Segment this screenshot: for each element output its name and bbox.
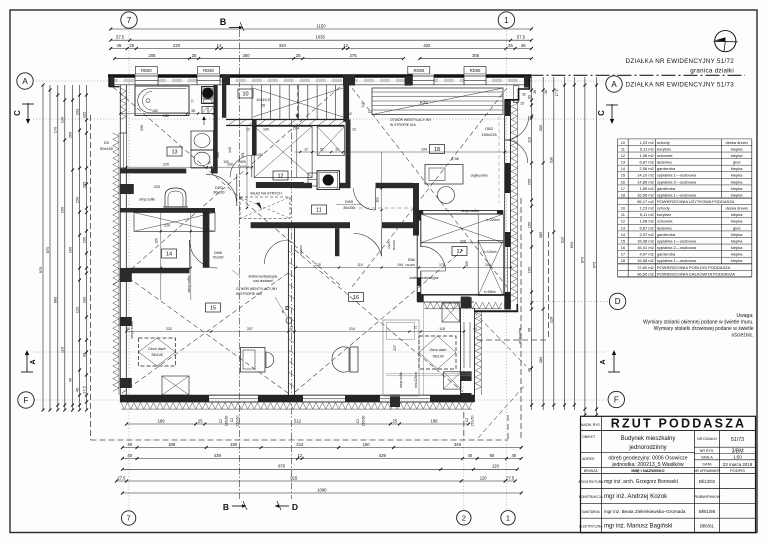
door arc room17 [421,246,445,248]
svg-text:klepka: klepka [731,166,743,171]
interior dim chain bathroom bottom [126,166,252,168]
window in bottom wall [380,394,430,396]
svg-text:12: 12 [413,326,417,330]
interior dim chain schowek row [295,151,511,153]
svg-text:15: 15 [210,306,216,312]
room label 11 [312,205,327,214]
right section arrow A [613,352,615,372]
roof diagonal left X [113,87,340,285]
svg-text:10x15,9: 10x15,9 [256,98,270,102]
svg-text:30: 30 [522,93,526,97]
svg-text:182: 182 [152,109,158,113]
svg-text:600: 600 [569,241,574,248]
roof diagonal right X [352,88,507,287]
svg-text:220: 220 [173,43,181,48]
door arc corridor-room16 [381,228,383,256]
svg-text:POWIERZCHNIA CAŁKOWITA PODDASZ: POWIERZCHNIA CAŁKOWITA PODDASZA [657,271,735,276]
svg-text:klepka: klepka [731,173,743,178]
svg-text:385: 385 [538,231,543,238]
built-in wardrobe K32 [372,88,503,115]
room label 17 [452,247,467,256]
svg-text:5,11 m2: 5,11 m2 [640,212,655,217]
svg-text:207: 207 [247,327,253,331]
svg-text:h=140cm: h=140cm [483,250,497,254]
desk room 15 [241,348,266,373]
svg-text:C2: C2 [465,418,469,422]
window in wing right wall [463,322,465,368]
svg-text:klepka: klepka [731,232,743,237]
interior wall bathroom south [120,169,186,174]
svg-text:100: 100 [485,263,491,267]
svg-text:12: 12 [352,128,356,132]
svg-text:2,37 m2: 2,37 m2 [639,232,654,237]
svg-text:mgr inż. Andrzej Kozok: mgr inż. Andrzej Kozok [604,493,668,500]
svg-text:334: 334 [279,43,287,48]
svg-text:16,58 m2: 16,58 m2 [637,258,654,263]
left section arrow C [27,103,29,122]
dashed eaves right bay [548,232,550,340]
svg-text:klepka: klepka [731,252,743,257]
svg-text:305: 305 [472,53,480,58]
svg-text:140: 140 [228,147,232,153]
room area schedule table [618,138,752,140]
grid marker circle 1 top [498,12,514,28]
svg-text:B: B [220,17,227,27]
roof window room 15 [139,338,176,366]
svg-text:A: A [600,359,607,364]
svg-text:38: 38 [191,109,195,113]
svg-text:14,10 m2: 14,10 m2 [637,173,654,178]
exterior wall top [108,74,531,77]
svg-text:OB2: OB2 [485,126,493,131]
right section arrow C [611,104,613,122]
svg-text:sypialnia 1—osobowa: sypialnia 1—osobowa [657,258,697,263]
svg-text:DW6: DW6 [214,251,222,255]
ceiling outline dashes room18 [352,207,412,209]
interior wall room14/15 divider [126,268,189,274]
svg-text:OTWÓR WENTYLACYJNY: OTWÓR WENTYLACYJNY [390,117,432,122]
interior wall room14 north [120,208,215,213]
lintel labels RD60 [135,67,157,75]
svg-text:52: 52 [320,147,324,151]
svg-text:6,87 m2: 6,87 m2 [639,225,654,230]
toilet in WC [165,188,186,207]
svg-text:mgr inż. Beata Zielenkiewska–G: mgr inż. Beata Zielenkiewska–Gromada [604,509,686,514]
svg-text:45: 45 [117,43,122,48]
svg-text:610: 610 [559,236,564,243]
room label 16 [349,293,364,302]
bottom dim row 40/439/12/439/40/80/40 [122,458,521,460]
svg-text:265: 265 [81,181,86,188]
wing bottom wall (room 17) [417,294,508,296]
svg-text:sypialnia 1—osobowa: sypialnia 1—osobowa [657,238,697,243]
svg-text:sypialnia 1—osobowa: sypialnia 1—osobowa [657,192,697,197]
svg-text:36: 36 [533,90,537,94]
svg-text:265: 265 [67,131,72,138]
svg-text:25: 25 [393,418,398,423]
dashed outline lower storey left [90,115,92,440]
window OB2 gap in right wall [504,116,506,163]
svg-text:27.5: 27.5 [506,475,515,480]
svg-text:BRANŻA: BRANŻA [584,468,598,473]
svg-text:80x200: 80x200 [392,240,396,250]
svg-text:275: 275 [350,53,358,58]
svg-text:Wymiary stolarki okiennej poda: Wymiary stolarki okiennej podane w świet… [643,320,754,326]
svg-text:cegła pełna: cegła pełna [471,174,488,178]
svg-text:189: 189 [168,442,176,447]
svg-text:350: 350 [538,124,543,131]
pier block on left wall [120,184,134,194]
exterior wall left [119,85,121,402]
svg-text:17: 17 [621,252,625,257]
svg-text:DW5: DW5 [387,241,391,248]
svg-text:530: 530 [549,156,554,163]
exterior wall wing right (room 16) [460,308,462,402]
svg-text:975: 975 [38,266,43,273]
svg-text:C2: C2 [356,419,360,423]
roof window room 16 [419,336,456,369]
pier block on left wall [120,317,132,326]
svg-text:120: 120 [315,263,321,267]
svg-text:12: 12 [343,43,348,48]
svg-text:1: 1 [504,16,509,25]
svg-text:schody: schody [657,206,670,211]
svg-text:151: 151 [241,152,245,158]
bottom dim row 40/189/150/212/150/349 [122,447,521,449]
svg-text:C: C [13,110,22,116]
gridline A-section horizontal dotted [33,351,606,353]
svg-text:K32: K32 [420,100,428,105]
svg-text:40: 40 [511,453,516,458]
svg-text:korytarz: korytarz [657,146,671,151]
svg-text:1035: 1035 [315,35,325,40]
top dimension row 1150 [111,28,532,30]
window D2 in left wall [120,133,128,168]
svg-text:220: 220 [163,163,169,167]
svg-text:łazienka: łazienka [657,160,672,165]
svg-text:12: 12 [217,43,222,48]
svg-text:182: 182 [163,114,169,118]
washer/dryer block [202,87,215,104]
svg-text:WŁAZ NA STRYCH: WŁAZ NA STRYCH [250,192,282,196]
svg-text:65x200: 65x200 [299,245,303,255]
pier block on left wall [120,268,132,282]
svg-text:2,56 m2: 2,56 m2 [639,166,654,171]
svg-text:12: 12 [297,453,302,458]
pier block on bottom wall [390,395,400,408]
gridline 7 vertical dotted [128,28,130,509]
svg-text:korytarz: korytarz [657,212,671,217]
gridline 1 vertical dotted [505,28,507,510]
svg-text:hm=120cm: hm=120cm [414,372,418,388]
svg-text:sypialnia 1—osobowa: sypialnia 1—osobowa [657,173,697,178]
svg-text:kratka wentylacyjna: kratka wentylacyjna [249,275,278,279]
svg-text:klepka: klepka [731,212,743,217]
right marker circle D [609,293,625,309]
svg-text:80: 80 [490,453,495,458]
svg-text:łazienka: łazienka [657,225,672,230]
svg-text:194: 194 [421,147,427,151]
svg-text:220: 220 [164,223,170,227]
svg-text:RD60: RD60 [141,68,152,73]
svg-text:ościeżnic.: ościeżnic. [732,333,754,339]
svg-text:Bł/13/02: Bł/13/02 [699,479,716,484]
right vertical dimension lines [531,77,533,410]
svg-text:1,98 m2: 1,98 m2 [639,219,654,224]
svg-text:RD60: RD60 [203,68,214,73]
svg-text:deska drewn: deska drewn [726,140,748,145]
window in bottom wall [209,394,258,396]
window gap 2 in right wall [507,247,509,292]
room label 15 [206,303,221,312]
dashed outline lower storey right [507,415,509,440]
central knee wall rooms 15/16 [287,228,289,395]
svg-text:512: 512 [294,418,302,423]
svg-text:25: 25 [129,43,134,48]
svg-text:207: 207 [393,345,397,351]
svg-text:40: 40 [127,453,132,458]
svg-text:150x50: 150x50 [362,415,366,426]
chimney flue block 1 hatch [202,87,204,88]
right marker circle F [608,391,624,407]
svg-text:OTWÓR WENTYLACYJNY: OTWÓR WENTYLACYJNY [236,286,278,291]
svg-text:klepka: klepka [731,245,743,250]
svg-text:120: 120 [480,475,488,480]
svg-text:Uwaga:: Uwaga: [737,313,754,319]
svg-text:189: 189 [431,418,439,423]
svg-text:260: 260 [243,53,251,58]
svg-text:165: 165 [216,152,220,158]
stair landing edge [226,119,345,121]
svg-text:150x215: 150x215 [481,132,497,137]
room label 13 [167,147,182,156]
hatch band below bottom wall [121,403,472,410]
svg-text:150: 150 [230,442,238,447]
left vertical dimension lines [42,85,44,410]
svg-text:kratka wentylacyjna: kratka wentylacyjna [410,276,439,280]
interior wall room14 east [203,213,210,268]
bottom dim row 27.5/915/120/27.5 [116,480,515,482]
svg-text:70x200: 70x200 [405,263,415,267]
svg-text:228: 228 [549,316,554,323]
svg-text:40: 40 [127,442,132,447]
svg-text:C2: C2 [230,418,234,422]
svg-text:garderoba: garderoba [657,232,676,237]
svg-text:IMIĘ I NAZWISKO: IMIĘ I NAZWISKO [631,468,664,473]
svg-text:obręb geodezyjny: 0006 Osowicz: obręb geodezyjny: 0006 Osowicze [608,456,687,462]
svg-text:ARCHITEKTURA: ARCHITEKTURA [578,480,604,484]
svg-text:57.5: 57.5 [116,35,125,40]
svg-text:72,60 m2: 72,60 m2 [637,265,654,270]
svg-text:KONSTRUKCJA: KONSTRUKCJA [579,495,604,499]
left marker circle F [18,392,34,408]
room label 14 [162,249,177,258]
svg-text:120: 120 [74,306,79,313]
svg-text:16,58 m2: 16,58 m2 [637,192,654,197]
svg-text:870: 870 [580,256,585,263]
svg-text:65,17 m2: 65,17 m2 [637,199,654,204]
svg-text:A: A [611,80,617,89]
svg-text:RD60: RD60 [413,68,424,73]
window in bottom wall [303,394,345,396]
svg-text:57.5: 57.5 [517,35,526,40]
svg-text:150x50: 150x50 [225,415,229,426]
svg-text:16,41 m2: 16,41 m2 [637,245,654,250]
svg-text:12: 12 [304,147,308,151]
svg-text:ADRES: ADRES [582,457,595,461]
dashed outline lower storey bottom [91,439,509,441]
svg-text:100: 100 [227,163,233,167]
svg-text:349: 349 [454,442,462,447]
svg-text:klepka: klepka [731,146,743,151]
ceiling line room 16 [386,373,472,375]
svg-text:OBIEKT: OBIEKT [582,435,596,439]
svg-text:obrys sufitu: obrys sufitu [461,209,479,213]
roof diagonal room16 [295,250,463,392]
svg-text:klepka: klepka [731,192,743,197]
svg-text:10: 10 [242,92,248,98]
top dimension row 205/25/260/25/275/305 [115,58,404,60]
wall stub room16 west [335,228,339,256]
svg-text:150: 150 [526,221,531,228]
right marker circle A [606,76,622,92]
svg-text:F: F [24,396,29,405]
svg-text:garderoba: garderoba [657,252,676,257]
svg-text:12: 12 [621,219,625,224]
svg-text:1,23 m2: 1,23 m2 [639,206,654,211]
svg-text:150: 150 [74,196,79,203]
room label 18 [430,145,445,154]
staircase treads [251,85,253,120]
svg-text:Okno dach: Okno dach [430,348,447,352]
gridline D horizontal dotted [530,300,609,302]
svg-text:40: 40 [126,327,130,331]
svg-text:280: 280 [538,356,543,363]
svg-text:klepka: klepka [731,219,743,224]
svg-text:C: C [597,110,606,116]
svg-text:226: 226 [460,240,466,244]
grid marker circle 7 top [121,12,137,28]
svg-text:12: 12 [368,110,372,114]
bottom dim row 1090 [122,492,521,494]
svg-text:25: 25 [192,53,197,58]
storage X-box 2 [317,127,344,156]
svg-text:klepka: klepka [731,258,743,263]
svg-text:sypialnia 2—osobowa: sypialnia 2—osobowa [657,179,697,184]
svg-text:POWIERZCHNIA UŻYTKOWA PODDASZA: POWIERZCHNIA UŻYTKOWA PODDASZA [657,199,735,204]
svg-text:160: 160 [81,236,86,243]
wall corner block top-right [524,76,530,88]
svg-text:2,98: 2,98 [451,157,458,161]
svg-text:439: 439 [214,453,222,458]
top dimension row 45/25/220/12/334/12/432/25/45 [111,48,532,50]
svg-text:ELEKTRYCZNA: ELEKTRYCZNA [579,525,603,529]
svg-text:870: 870 [278,464,286,469]
svg-text:36: 36 [544,90,548,94]
staircase guide diagonals [253,88,343,117]
svg-text:SANITARNA: SANITARNA [582,510,601,514]
svg-text:garderoba: garderoba [657,166,676,171]
north arrow symbol [715,30,736,51]
svg-text:NR UPRAWNIEŃ: NR UPRAWNIEŃ [694,469,720,473]
svg-text:obrys sufitu: obrys sufitu [187,275,191,292]
svg-text:17: 17 [621,186,625,191]
svg-text:975: 975 [591,261,596,268]
roof diagonal bottom-right notch [474,312,526,366]
svg-text:schody: schody [657,140,670,145]
bottom dim row 870/120 [122,468,517,470]
svg-text:170: 170 [439,263,445,267]
svg-text:C2: C2 [219,419,223,423]
interior dim chain rooms 15/16 [126,331,464,333]
svg-text:NR RYS.: NR RYS. [700,449,715,453]
parcel boundary dash-dot line [530,74,746,76]
svg-text:78x140: 78x140 [432,355,444,359]
svg-text:1,89 m2: 1,89 m2 [639,186,654,191]
svg-text:h=55cm: h=55cm [484,290,496,294]
svg-text:obrys sufitu: obrys sufitu [130,321,134,338]
svg-text:Bł/51/98: Bł/51/98 [699,509,716,514]
svg-text:schowek: schowek [657,219,673,224]
svg-text:432: 432 [423,43,431,48]
svg-text:DATA: DATA [702,463,712,467]
schowek door arc [251,155,253,177]
svg-text:W STROPIE #15: W STROPIE #15 [236,292,262,296]
svg-text:A: A [22,77,28,86]
room17 wall west [416,210,418,301]
svg-text:DW6: DW6 [408,258,415,262]
interior wall room11/18 divider [413,183,419,236]
interior wall bathroom east [214,85,218,174]
svg-text:26: 26 [261,104,265,108]
svg-text:118: 118 [439,327,445,331]
svg-text:1150: 1150 [317,24,327,29]
svg-text:DW3: DW3 [215,186,223,190]
svg-text:78x140: 78x140 [151,353,163,357]
svg-text:PODPIS: PODPIS [730,468,745,473]
svg-text:120: 120 [492,464,500,469]
svg-text:D: D [285,306,289,312]
svg-text:klepka: klepka [731,238,743,243]
svg-text:70x200: 70x200 [212,256,223,260]
svg-text:7: 7 [127,514,131,523]
svg-text:jednorodzinny: jednorodzinny [628,445,666,451]
svg-text:314: 314 [349,327,355,331]
svg-text:klepka: klepka [731,153,743,158]
gridline 2 vertical dotted [463,300,465,510]
svg-text:RD60: RD60 [470,68,481,73]
svg-text:439: 439 [379,453,387,458]
svg-text:mgr inż. Mariusz Bagiński: mgr inż. Mariusz Bagiński [604,524,672,530]
svg-text:255: 255 [526,178,531,185]
roof diagonal room15 [122,273,288,393]
svg-text:335: 335 [140,125,144,131]
svg-text:12: 12 [348,112,352,116]
svg-text:DW5: DW5 [238,160,245,164]
svg-text:cegła pełna: cegła pełna [518,328,522,345]
bathtub [135,86,189,115]
svg-text:194: 194 [397,263,403,267]
wall corner block top-left [109,76,114,87]
section line B vertical dash-dot [239,30,241,499]
svg-text:schowek: schowek [657,153,673,158]
svg-text:D2: D2 [104,140,110,145]
svg-text:15: 15 [520,102,524,106]
svg-text:5,11 m2: 5,11 m2 [640,146,655,151]
title block [581,416,756,532]
svg-text:deska drewn: deska drewn [726,206,748,211]
gridline A horizontal dotted [33,80,606,82]
